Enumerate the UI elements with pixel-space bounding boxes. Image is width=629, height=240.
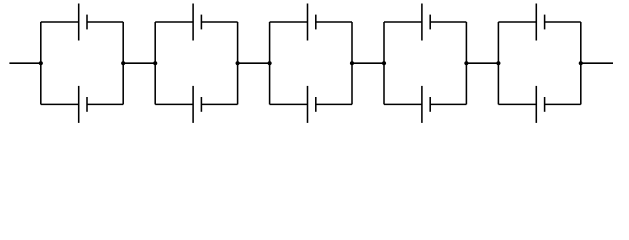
wire: right lead (581, 62, 613, 64)
wire: cell 2 right riser (237, 22, 239, 104)
wire: cell 2 bottom rail (left of battery B4) (155, 103, 193, 105)
node: junction dot at left of cell 4 (382, 61, 386, 65)
wire: cell 4 left riser (383, 22, 385, 104)
wire: cell 3 bottom rail (left of battery B6) (270, 103, 308, 105)
node: junction dot at left of cell 2 (153, 61, 157, 65)
wire: cell 2 top rail (right of battery B3) (201, 21, 237, 23)
wire: cell 4 bottom rail (right of battery B8) (430, 103, 466, 105)
wire: cell 5 bottom rail (left of battery B10) (498, 103, 536, 105)
wire: cell 2 bottom rail (right of battery B4) (201, 103, 237, 105)
wire: cell 5 bottom rail (right of battery B10) (545, 103, 581, 105)
battery cell B10 (bottom branch of cell 5) (536, 86, 544, 123)
wire: cell 5 left riser (497, 22, 499, 104)
node: junction dot at right of cell 5 (579, 61, 583, 65)
wire: cell 5 top rail (right of battery B9) (545, 21, 581, 23)
wire: cell 3 top rail (right of battery B5) (316, 21, 352, 23)
wire: cell 3 bottom rail (right of battery B6) (316, 103, 352, 105)
battery cell B7 (top branch of cell 4) (422, 4, 430, 41)
wire: cell 3 right riser (351, 22, 353, 104)
wire: cell 2 left riser (154, 22, 156, 104)
battery cell B2 (bottom branch of cell 1) (79, 86, 87, 123)
node: junction dot at right of cell 1 (121, 61, 125, 65)
wire: cell 3 left riser (269, 22, 271, 104)
wire: cell 1 bottom rail (right of battery B2) (87, 103, 123, 105)
battery cell B9 (top branch of cell 5) (536, 4, 544, 41)
battery cell B5 (top branch of cell 3) (308, 4, 316, 41)
wire: cell 4 right riser (465, 22, 467, 104)
node: junction dot at right of cell 4 (464, 61, 468, 65)
wire: cell 4 bottom rail (left of battery B8) (384, 103, 422, 105)
battery cell B4 (bottom branch of cell 2) (193, 86, 201, 123)
battery cell B1 (top branch of cell 1) (79, 4, 87, 41)
wire: cell 4 top rail (right of battery B7) (430, 21, 466, 23)
wire: cell 1 left riser (40, 22, 42, 104)
battery cell B6 (bottom branch of cell 3) (308, 86, 316, 123)
wire: connector between cell 1 and cell 2 (123, 62, 155, 64)
node: junction dot at left of cell 3 (268, 61, 272, 65)
battery cell B3 (top branch of cell 2) (193, 4, 201, 41)
node: junction dot at right of cell 3 (350, 61, 354, 65)
wire: cell 2 top rail (left of battery B3) (155, 21, 193, 23)
wire: left lead (9, 62, 40, 64)
wire: cell 1 top rail (left of battery B1) (41, 21, 79, 23)
wire: cell 4 top rail (left of battery B7) (384, 21, 422, 23)
wire: cell 5 top rail (left of battery B9) (498, 21, 536, 23)
wire: cell 1 right riser (122, 22, 124, 104)
wire: connector between cell 2 and cell 3 (238, 62, 270, 64)
node: junction dot at left of cell 5 (496, 61, 500, 65)
node: junction dot at right of cell 2 (236, 61, 240, 65)
node: junction dot at left of cell 1 (39, 61, 43, 65)
wire: cell 3 top rail (left of battery B5) (270, 21, 308, 23)
wire: cell 1 top rail (right of battery B1) (87, 21, 123, 23)
wire: cell 5 right riser (580, 22, 582, 104)
wire: connector between cell 4 and cell 5 (466, 62, 498, 64)
battery cell B8 (bottom branch of cell 4) (422, 86, 430, 123)
wire: cell 1 bottom rail (left of battery B2) (41, 103, 79, 105)
wire: connector between cell 3 and cell 4 (352, 62, 384, 64)
